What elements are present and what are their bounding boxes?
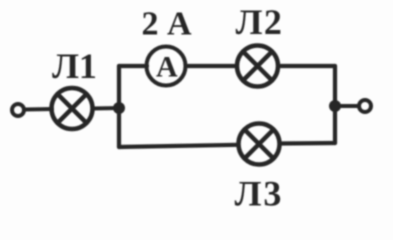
wire node right to terminal right	[340, 104, 358, 108]
svg-text:Л1: Л1	[52, 46, 97, 86]
wire left terminal to lamp L1	[25, 107, 52, 112]
lamp L1	[52, 88, 93, 129]
svg-text:Л2: Л2	[236, 2, 284, 42]
wire lamp L2 to right top corner	[279, 64, 336, 68]
svg-text:А: А	[156, 51, 178, 84]
terminal left	[12, 104, 24, 116]
wire node left up-corner to ammeter	[119, 64, 147, 68]
terminal right	[359, 100, 371, 112]
wire right vertical branch	[333, 66, 337, 143]
wire lamp L1 to node left	[93, 106, 119, 111]
wire bottom branch right segment	[280, 141, 335, 146]
lamp L2	[237, 46, 278, 87]
wire ammeter to lamp L2	[186, 64, 237, 68]
ammeter A	[147, 47, 186, 86]
lamp L3	[239, 124, 280, 165]
svg-text:Л3: Л3	[235, 174, 284, 214]
svg-text:2 А: 2 А	[141, 6, 192, 43]
wire bottom branch left segment	[119, 145, 238, 147]
node right (junction dot)	[330, 101, 341, 112]
wire left vertical branch	[117, 66, 121, 147]
node left (junction dot)	[114, 103, 125, 114]
